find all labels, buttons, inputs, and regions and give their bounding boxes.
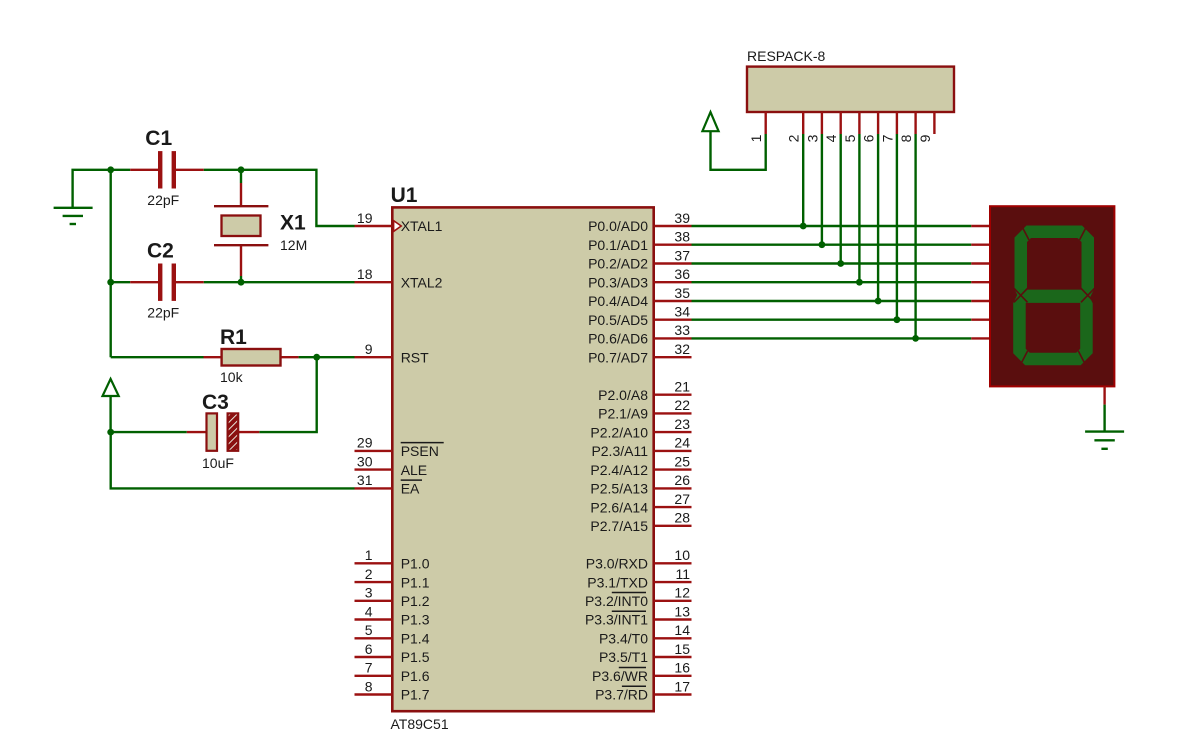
svg-text:36: 36 — [674, 266, 690, 282]
svg-text:P3.7/RD: P3.7/RD — [595, 687, 648, 703]
node C3 left junction — [107, 429, 114, 436]
svg-text:6: 6 — [365, 641, 373, 657]
display pin stub 3 — [971, 281, 990, 283]
pin 19 XTAL1 (left) — [355, 210, 443, 234]
display segment seams — [1014, 227, 1095, 365]
svg-text:5: 5 — [365, 622, 373, 638]
display pin stub 0 — [971, 225, 990, 227]
svg-text:17: 17 — [674, 678, 690, 694]
power symbol (left, near C3) — [103, 379, 119, 432]
svg-text:P1.2: P1.2 — [401, 593, 430, 609]
display pin stub 4 — [971, 300, 990, 302]
pin 38 P0.1/AD1 (right) — [588, 229, 691, 253]
display segments bottom loop (e,c,d,g) — [1013, 290, 1092, 366]
svg-text:P1.7: P1.7 — [401, 687, 430, 703]
pin 32 P0.7/AD7 (right) — [588, 341, 691, 365]
pin 22 P2.1/A9 (right) — [598, 397, 691, 421]
resistor pack RESPACK-8 — [747, 48, 954, 112]
svg-text:P1.4: P1.4 — [401, 631, 430, 647]
svg-text:12M: 12M — [280, 237, 307, 253]
node C1-left/trunk — [107, 166, 114, 173]
crystal X1 — [214, 183, 307, 276]
svg-text:1: 1 — [365, 547, 373, 563]
svg-text:C3: C3 — [202, 391, 229, 414]
svg-text:3: 3 — [804, 134, 820, 142]
svg-text:21: 21 — [674, 379, 690, 395]
pin 30 ALE (left) — [355, 453, 428, 477]
svg-text:P3.3/INT1: P3.3/INT1 — [585, 612, 648, 628]
pin 15 P3.5/T1 (right) — [599, 641, 692, 665]
svg-text:P2.6/A14: P2.6/A14 — [590, 499, 648, 515]
pin 3 P1.2 (left) — [355, 585, 430, 609]
svg-text:22: 22 — [674, 397, 690, 413]
wire C3 row left — [111, 431, 187, 433]
svg-text:XTAL2: XTAL2 — [401, 274, 443, 290]
svg-text:P1.0: P1.0 — [401, 556, 430, 572]
respack pin 5 stub — [842, 112, 860, 142]
svg-text:39: 39 — [674, 210, 690, 226]
display pin stub 6 — [971, 337, 990, 339]
node tap junction 6 — [875, 298, 882, 305]
pin 23 P2.2/A10 (right) — [590, 416, 691, 440]
wire C1 row left — [111, 169, 131, 171]
display common pin stub — [1103, 386, 1105, 404]
svg-text:2: 2 — [786, 134, 802, 142]
pin 35 P0.4/AD4 (right) — [588, 285, 691, 309]
respack pin 2 stub — [786, 112, 804, 142]
pin 25 P2.4/A12 (right) — [590, 453, 691, 477]
svg-text:5: 5 — [842, 134, 858, 142]
svg-text:R1: R1 — [220, 326, 247, 349]
7-segment display body — [990, 206, 1114, 386]
svg-text:RESPACK-8: RESPACK-8 — [747, 48, 826, 64]
ground (below display) — [1085, 432, 1124, 449]
respack pin 1 stub — [748, 112, 766, 142]
svg-text:16: 16 — [674, 660, 690, 676]
svg-text:3: 3 — [365, 585, 373, 601]
pin 8 P1.7 (left) — [355, 678, 430, 702]
pin 21 P2.0/A8 (right) — [598, 379, 691, 403]
pin 24 P2.3/A11 (right) — [591, 435, 691, 459]
display segments top loop (a,f,b,g) — [1015, 226, 1095, 303]
wire P0.4 net to display segment — [692, 300, 972, 302]
svg-text:P1.6: P1.6 — [401, 668, 430, 684]
svg-text:P1.1: P1.1 — [401, 574, 430, 590]
svg-text:32: 32 — [674, 341, 690, 357]
svg-text:8: 8 — [898, 134, 914, 142]
svg-text:31: 31 — [357, 472, 373, 488]
svg-text:P2.3/A11: P2.3/A11 — [591, 443, 648, 459]
node tap junction 4 — [837, 260, 844, 267]
pin 9 RST (left) — [355, 341, 430, 365]
svg-text:PSEN: PSEN — [401, 443, 439, 459]
svg-text:P2.1/A9: P2.1/A9 — [598, 406, 648, 422]
svg-text:2: 2 — [365, 566, 373, 582]
svg-text:P0.0/AD0: P0.0/AD0 — [588, 218, 648, 234]
svg-text:P0.5/AD5: P0.5/AD5 — [588, 312, 648, 328]
capacitor C1 — [130, 127, 204, 208]
display pin stub 5 — [971, 319, 990, 321]
svg-text:AT89C51: AT89C51 — [391, 716, 449, 732]
capacitor C2 — [130, 240, 204, 321]
node C2-left/trunk — [107, 279, 114, 286]
pin 16 P3.6/WR (right) — [592, 660, 692, 684]
svg-text:P3.2/INT0: P3.2/INT0 — [585, 593, 648, 609]
node tap junction 8 — [912, 335, 919, 342]
svg-text:P3.4/T0: P3.4/T0 — [599, 631, 648, 647]
ground (left) — [54, 170, 111, 224]
wire RST junction down to C3 — [259, 357, 316, 432]
wire C1 row right — [204, 169, 241, 171]
svg-text:C2: C2 — [147, 240, 174, 263]
svg-text:25: 25 — [674, 453, 690, 469]
svg-text:U1: U1 — [391, 184, 418, 207]
svg-text:10uF: 10uF — [202, 455, 234, 471]
display pin stub 2 — [971, 262, 990, 264]
svg-text:19: 19 — [357, 210, 373, 226]
respack pin 8 stub — [898, 112, 916, 142]
svg-text:22pF: 22pF — [147, 305, 179, 321]
svg-text:XTAL1: XTAL1 — [401, 218, 443, 234]
svg-text:37: 37 — [674, 247, 690, 263]
node tap junction 3 — [819, 241, 826, 248]
pin 13 P3.3/INT1 (right) — [585, 603, 692, 627]
respack pin 3 stub — [804, 112, 822, 142]
svg-text:27: 27 — [674, 491, 690, 507]
pin 17 P3.7/RD (right) — [595, 678, 691, 702]
pin 27 P2.6/A14 (right) — [590, 491, 691, 515]
svg-text:14: 14 — [674, 622, 690, 638]
node tap junction 2 — [800, 223, 807, 230]
wire respack pin 6 tap — [877, 134, 879, 301]
pin 14 P3.4/T0 (right) — [599, 622, 692, 646]
pin 39 P0.0/AD0 (right) — [588, 210, 691, 234]
clock input triangle pin 19 — [394, 221, 402, 232]
node C2/crystal bottom — [238, 279, 245, 286]
svg-text:RST: RST — [401, 349, 429, 365]
svg-text:P0.2/AD2: P0.2/AD2 — [588, 256, 648, 272]
node RST junction — [313, 354, 320, 361]
respack pin 4 stub — [823, 112, 841, 142]
respack pin 7 stub — [879, 112, 897, 142]
U1 AT89C51 microcontroller body — [391, 184, 654, 732]
respack pin 9 stub — [917, 112, 935, 142]
svg-text:24: 24 — [674, 435, 690, 451]
svg-text:35: 35 — [674, 285, 690, 301]
svg-text:38: 38 — [674, 229, 690, 245]
svg-text:P2.2/A10: P2.2/A10 — [590, 424, 648, 440]
svg-text:12: 12 — [674, 585, 690, 601]
wire respack pin 2 tap — [802, 134, 804, 226]
pin 5 P1.4 (left) — [355, 622, 430, 646]
display pin stub 1 — [971, 243, 990, 245]
svg-text:X1: X1 — [280, 212, 306, 235]
wire left trunk vertical — [109, 170, 111, 357]
wire P0.6 net to display segment — [692, 337, 972, 339]
svg-text:P0.7/AD7: P0.7/AD7 — [588, 349, 648, 365]
svg-text:7: 7 — [879, 134, 895, 142]
wire crystal top stub — [240, 170, 242, 183]
svg-text:4: 4 — [823, 134, 839, 142]
wire respack pin 7 tap — [896, 134, 898, 320]
svg-text:P1.5: P1.5 — [401, 649, 430, 665]
svg-text:P3.0/RXD: P3.0/RXD — [586, 556, 648, 572]
svg-text:8: 8 — [365, 678, 373, 694]
svg-text:9: 9 — [917, 134, 933, 142]
pin 7 P1.6 (left) — [355, 660, 430, 684]
pin 18 XTAL2 (left) — [355, 266, 443, 290]
pin 31 EA (left) — [355, 472, 423, 496]
wire P0.0 net to display segment — [692, 225, 972, 227]
wire respack pin 3 tap — [821, 134, 823, 245]
wire to EA pin 31 — [111, 432, 355, 488]
svg-text:C1: C1 — [145, 127, 172, 150]
wire RST row right to pin 9 — [299, 356, 355, 358]
svg-text:P2.5/A13: P2.5/A13 — [590, 481, 648, 497]
pin 10 P3.0/RXD (right) — [586, 547, 692, 571]
svg-text:18: 18 — [357, 266, 373, 282]
pin 33 P0.6/AD6 (right) — [588, 322, 691, 346]
svg-text:ALE: ALE — [401, 462, 427, 478]
wire C2 row right — [204, 281, 241, 283]
svg-text:P3.5/T1: P3.5/T1 — [599, 649, 648, 665]
svg-text:P3.1/TXD: P3.1/TXD — [587, 574, 648, 590]
pin 29 PSEN (left) — [355, 435, 444, 459]
wire P0.3 net to display segment — [692, 281, 972, 283]
svg-text:11: 11 — [675, 566, 690, 582]
svg-text:P2.0/A8: P2.0/A8 — [598, 387, 648, 403]
svg-text:P3.6/WR: P3.6/WR — [592, 668, 648, 684]
svg-text:P0.4/AD4: P0.4/AD4 — [588, 293, 648, 309]
svg-text:7: 7 — [365, 660, 373, 676]
power symbol (near RESPACK pin 1) — [702, 112, 765, 170]
wire respack pin 5 tap — [858, 134, 860, 282]
svg-text:4: 4 — [365, 603, 373, 619]
svg-text:28: 28 — [674, 510, 690, 526]
capacitor C3 — [187, 391, 259, 471]
pin 37 P0.2/AD2 (right) — [588, 247, 691, 271]
node C1/crystal top — [238, 166, 245, 173]
wire C2 row left — [111, 281, 131, 283]
wire P0.1 net to display segment — [692, 243, 972, 245]
svg-text:9: 9 — [365, 341, 373, 357]
svg-text:15: 15 — [674, 641, 690, 657]
wire RST row left — [111, 356, 204, 358]
wire P0.2 net to display segment — [692, 262, 972, 264]
node tap junction 7 — [894, 316, 901, 323]
respack pin 6 stub — [861, 112, 879, 142]
svg-text:P0.3/AD3: P0.3/AD3 — [588, 274, 648, 290]
svg-text:10k: 10k — [220, 369, 244, 385]
wire C1 junction to XTAL1 pin 19 — [241, 170, 355, 226]
svg-text:13: 13 — [674, 603, 690, 619]
pin 26 P2.5/A13 (right) — [590, 472, 691, 496]
resistor R1 — [204, 326, 299, 385]
svg-text:P0.6/AD6: P0.6/AD6 — [588, 331, 648, 347]
svg-text:10: 10 — [674, 547, 690, 563]
svg-text:P2.7/A15: P2.7/A15 — [590, 518, 648, 534]
svg-text:33: 33 — [674, 322, 690, 338]
svg-text:23: 23 — [674, 416, 690, 432]
pin 36 P0.3/AD3 (right) — [588, 266, 691, 290]
wire display to ground — [1103, 405, 1105, 432]
wire respack pin 4 tap — [840, 134, 842, 264]
svg-text:30: 30 — [357, 453, 373, 469]
wire XTAL2 row to pin 18 — [241, 281, 355, 283]
svg-text:1: 1 — [748, 134, 764, 142]
svg-text:P2.4/A12: P2.4/A12 — [590, 462, 648, 478]
wire respack pin 8 tap — [914, 134, 916, 338]
wire crystal bottom stub — [240, 276, 242, 282]
pin 6 P1.5 (left) — [355, 641, 430, 665]
svg-text:EA: EA — [401, 481, 420, 497]
svg-text:26: 26 — [674, 472, 690, 488]
pin 34 P0.5/AD5 (right) — [588, 304, 691, 328]
wire P0.5 net to display segment — [692, 319, 972, 321]
svg-text:29: 29 — [357, 435, 373, 451]
svg-text:22pF: 22pF — [147, 192, 179, 208]
pin 11 P3.1/TXD (right) — [587, 566, 691, 590]
pin 2 P1.1 (left) — [355, 566, 430, 590]
svg-text:P1.3: P1.3 — [401, 612, 430, 628]
svg-text:6: 6 — [861, 134, 877, 142]
node tap junction 5 — [856, 279, 863, 286]
pin 1 P1.0 (left) — [355, 547, 430, 571]
pin 4 P1.3 (left) — [355, 603, 430, 627]
pin 28 P2.7/A15 (right) — [590, 510, 691, 534]
pin 12 P3.2/INT0 (right) — [585, 585, 692, 609]
svg-text:P0.1/AD1: P0.1/AD1 — [588, 237, 648, 253]
svg-text:34: 34 — [674, 304, 690, 320]
